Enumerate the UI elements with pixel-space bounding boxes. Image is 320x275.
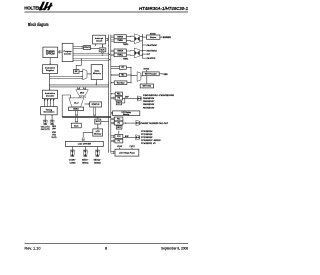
bus arrow to voltage pump: [111, 151, 115, 154]
pad PA: [136, 120, 140, 125]
wire to RES pad: [51, 115, 53, 120]
svg-text:STATUS: STATUS: [92, 103, 101, 106]
svg-text:September 8, 2008: September 8, 2008: [161, 246, 188, 250]
svg-text:STACK: STACK: [84, 46, 91, 49]
wire interrupt stub: [95, 44, 97, 46]
svg-text:COM0~: COM0~: [69, 160, 77, 162]
wire buzzer out: [160, 37, 162, 38]
wire pair bus to tmr0h: [111, 36, 114, 37]
svg-text:VSS: VSS: [52, 134, 56, 136]
bus arrow into LCD driver: [82, 137, 85, 141]
svg-text:Counter: Counter: [64, 52, 72, 55]
block PAC: [114, 117, 123, 121]
svg-text:SEG23: SEG23: [94, 163, 101, 165]
svg-text:VLCD: VLCD: [52, 137, 58, 139]
wire pin line right: [141, 34, 143, 58]
svg-text:PA4/TMR0: PA4/TMR0: [147, 44, 158, 47]
wire bus to TBC: [111, 74, 120, 76]
block WDT Prescaler: [142, 72, 159, 76]
svg-text:WDT OSC: WDT OSC: [143, 86, 152, 88]
bus arrow to PB: [111, 97, 115, 100]
wire to OSC1 pad: [44, 115, 46, 120]
block Buzzer: [147, 35, 160, 39]
wire bus to mux2: [97, 118, 99, 120]
wire bus to PBC: [111, 93, 115, 95]
junction mux1 pair: [102, 55, 103, 56]
wire PB to pad: [122, 97, 137, 99]
svg-text:SEG11: SEG11: [82, 163, 89, 165]
svg-text:BZ/BZB: BZ/BZB: [163, 37, 171, 39]
svg-text:PC1/SEG25: PC1/SEG25: [141, 134, 153, 136]
junction col a: [130, 67, 131, 68]
svg-text:VPP: VPP: [52, 129, 56, 131]
svg-text:PB4/SEG36: PB4/SEG36: [143, 97, 155, 100]
bus arrow interrupt to bus: [106, 38, 109, 41]
block timer 1 low: [114, 53, 126, 57]
svg-text:TMR1: TMR1: [123, 58, 129, 60]
block PBC: [115, 92, 122, 95]
block Program EPROM: [43, 47, 58, 58]
wire fsys stub: [145, 70, 147, 72]
wire bus to ALU input: [62, 95, 70, 117]
block Interrupt Circuit: [93, 35, 106, 44]
wire mux2 to bus: [101, 121, 109, 123]
block Timing Generation: [41, 107, 58, 115]
bus arrow bus to ACC: [75, 118, 78, 123]
svg-text:OSC2 XT2: OSC2 XT2: [41, 129, 50, 131]
block Data Memory: [91, 65, 102, 80]
svg-text:Memory: Memory: [94, 133, 101, 135]
block PB: [115, 96, 122, 100]
junction pin line tmr1 a: [142, 50, 143, 51]
pad RES: [50, 120, 54, 125]
svg-text:TMR0L: TMR0L: [117, 40, 123, 42]
wire pair IR bus b: [50, 78, 83, 79]
svg-text:PC2/SEG26: PC2/SEG26: [141, 137, 153, 139]
wire pair bus to tmr1h: [111, 50, 114, 51]
wire vertical system bus: [109, 35, 111, 153]
bus arrow into mux: [77, 87, 80, 90]
wire pad tmr0 out bottom: [140, 40, 143, 42]
svg-text:COM3: COM3: [69, 163, 76, 165]
wire PCC up: [118, 131, 119, 135]
block PC: [115, 139, 123, 143]
wire into ALU: [70, 95, 71, 98]
block MUX lcd: [95, 119, 101, 124]
wire pair bus to tmr1l: [111, 54, 114, 55]
block timer 1 high: [114, 49, 126, 53]
wire pin stub PA5/TMR1: [142, 49, 146, 51]
pad TMR0: [134, 34, 139, 44]
Holtek logo: [24, 2, 52, 11]
junction bus a: [109, 54, 110, 55]
block MP: [73, 70, 79, 74]
svg-text:Generation: Generation: [43, 111, 55, 114]
block Time Base: [114, 81, 127, 85]
block PB mux: [116, 101, 121, 105]
bus arrow into mux 2: [83, 87, 86, 90]
wire pb mux link: [122, 98, 125, 103]
wire IR to decoder: [49, 74, 51, 91]
svg-text:Memory: Memory: [93, 72, 102, 75]
svg-text:Memory: Memory: [123, 113, 129, 116]
pad PB: [137, 96, 141, 101]
svg-text:EPROM: EPROM: [46, 53, 55, 55]
block TBC: [119, 73, 126, 76]
block ACC: [71, 123, 81, 128]
bus arrow to PC: [111, 140, 115, 143]
svg-text:Decoder: Decoder: [46, 94, 55, 97]
wire pair PC bus upper: [73, 54, 109, 56]
wire MP to mux: [79, 71, 83, 72]
wire driver to SEG A pad: [84, 147, 86, 151]
junction at decoder: [49, 89, 50, 90]
svg-text:LCD Voltage Pump: LCD Voltage Pump: [119, 151, 135, 154]
block PA: [114, 121, 123, 125]
svg-text:ACC: ACC: [74, 124, 79, 127]
wires mux to ALU: [78, 96, 85, 98]
svg-text:PC0/SEG24: PC0/SEG24: [141, 130, 153, 133]
svg-text:Block diagram: Block diagram: [28, 22, 49, 27]
junction pin line tmr0 b: [142, 40, 143, 41]
wire mux2 to LCD memory: [97, 124, 98, 129]
svg-text:PB7/SEG39: PB7/SEG39: [143, 107, 155, 109]
bus arrow mux1 to bus: [101, 52, 104, 54]
svg-text:LCD DRIVER: LCD DRIVER: [78, 144, 92, 146]
mux WDT: [137, 72, 141, 82]
block Program Counter: [62, 43, 73, 61]
wire wdt collector: [126, 68, 137, 83]
block WDT OSC: [140, 84, 153, 88]
block LCD Driver: [65, 141, 103, 146]
svg-text:Register: Register: [46, 69, 54, 72]
svg-text:TMR0: TMR0: [123, 44, 129, 46]
wire pair bus to tmr0l: [111, 40, 114, 41]
wire bus to timebase: [111, 82, 115, 84]
wire bus to ITC pair: [111, 67, 120, 69]
footer rule: [25, 242, 189, 244]
block Instruction Decoder: [43, 90, 58, 98]
wire pad tmr1 out top: [140, 50, 143, 52]
junction pa out: [125, 123, 126, 124]
bus arrow shifter to bus: [75, 111, 78, 117]
svg-text:PA5/TMR1: PA5/TMR1: [147, 49, 158, 52]
svg-text:8: 8: [105, 246, 107, 250]
block timer 0 high: [114, 35, 126, 39]
wire pin stub PA3/PFD: [142, 57, 146, 59]
junction pin line tmr0 a: [142, 36, 143, 37]
junction col c: [130, 82, 131, 83]
wire PC to pad: [123, 137, 136, 139]
wire tmr0 to pad: [126, 36, 134, 41]
wire driver to COM pad: [71, 147, 73, 151]
svg-text:Circuit: Circuit: [96, 39, 103, 42]
junction col b: [130, 74, 131, 75]
bus arrow STATUS to bus: [93, 107, 96, 116]
block LCD Memory: [93, 129, 103, 136]
mux MP: [83, 69, 87, 80]
junction interrupt: [102, 46, 103, 47]
svg-text:ALU: ALU: [74, 101, 79, 104]
pad SEG A: [83, 150, 87, 157]
wire ALU to STATUS: [85, 103, 90, 104]
wire interrupt to mux1: [102, 44, 104, 48]
wire prescaler out: [159, 73, 163, 74]
bus arrow PC to stack: [73, 46, 83, 49]
wire C pin: [132, 148, 133, 150]
svg-text:HT49R30A-1/HT49C30-1: HT49R30A-1/HT49C30-1: [139, 6, 189, 11]
block MUX int: [99, 48, 106, 52]
wire stack level to mux1: [91, 48, 100, 50]
block LCD Display Memory: [113, 111, 140, 116]
svg-text:MUX: MUX: [117, 102, 120, 104]
wire pair PC bus lower: [73, 59, 109, 61]
wire bus to display memory: [111, 112, 113, 113]
pad SEG B: [95, 150, 99, 157]
junction pb out: [124, 98, 125, 99]
junction bus pbc: [111, 93, 112, 94]
wire pair IR bus a: [50, 76, 83, 77]
wire V pin: [119, 148, 120, 150]
svg-text:SEG0~: SEG0~: [82, 160, 89, 162]
svg-text:Time Base: Time Base: [117, 82, 125, 84]
block PA mux: [116, 126, 122, 129]
wire PA to pad: [123, 122, 136, 124]
pad TMR1: [134, 48, 139, 58]
pad OSC1/OSC2: [43, 120, 47, 125]
svg-text:RES: RES: [164, 74, 169, 76]
svg-text:PA0/BZ PA1/BZB PA2~PA7: PA0/BZ PA1/BZB PA2~PA7: [141, 122, 169, 125]
mux above ALU: [76, 90, 88, 96]
wire branch to MP: [76, 59, 81, 70]
svg-text:PA3/PFD: PA3/PFD: [147, 57, 156, 60]
bus arrow to PCC: [111, 135, 115, 138]
junction bus timebase: [111, 82, 112, 83]
bus arrow to PA: [111, 122, 115, 125]
junction pair b left: [49, 84, 50, 85]
svg-text:TMR1L: TMR1L: [117, 54, 123, 56]
wire main data bus: [62, 116, 111, 118]
wire ROM to IR: [50, 58, 51, 65]
header rule: [25, 11, 189, 13]
svg-text:SEG12~: SEG12~: [94, 160, 103, 162]
svg-text:Rev. 1.10: Rev. 1.10: [25, 246, 41, 250]
wire prescaler to wdt: [146, 76, 148, 84]
svg-text:PC3/SEG27~SEG30: PC3/SEG27~SEG30: [141, 140, 161, 142]
junction bus tbc: [111, 74, 112, 75]
svg-text:Shifter: Shifter: [73, 108, 79, 111]
block STACK: [84, 46, 91, 50]
svg-text:PB6/SEG38: PB6/SEG38: [143, 104, 155, 106]
svg-text:MUX: MUX: [117, 127, 120, 129]
block Instruction Register: [43, 65, 58, 74]
svg-text:TMR0H: TMR0H: [117, 36, 124, 38]
junction dm bus: [96, 84, 97, 85]
svg-text:Buzzer: Buzzer: [150, 37, 157, 39]
wire pad tmr0 out top: [140, 36, 143, 38]
junction pin line tmr1 b: [142, 55, 143, 56]
block LCD Voltage Pump: [115, 149, 139, 156]
wire data memory to bus: [96, 80, 97, 85]
svg-text:PB0/SEG32~PB3/SEG35: PB0/SEG32~PB3/SEG35: [143, 95, 175, 97]
bus arrow to PAC: [111, 118, 115, 121]
junction MP branch: [81, 58, 82, 59]
wire to buzzer: [142, 36, 146, 38]
svg-text:PC4/SEG31 V3: PC4/SEG31 V3: [141, 142, 156, 145]
wire pair main mid bus: [50, 85, 109, 87]
svg-text:WDT Prescaler: WDT Prescaler: [145, 72, 157, 75]
pad COM: [70, 150, 74, 157]
wire pin stub PA4/TMR0: [142, 44, 146, 46]
junction bus b: [109, 59, 110, 60]
svg-text:INT: INT: [147, 54, 151, 56]
block timer 0 low: [114, 39, 126, 43]
bus arrow PC to ROM: [58, 50, 62, 53]
wire LCD memory to driver: [83, 133, 93, 138]
block Shifter: [69, 107, 84, 110]
ALU: [69, 98, 84, 107]
svg-text:MUX: MUX: [80, 93, 85, 95]
wires decoder to timing: [44, 99, 55, 107]
block PCC: [115, 134, 123, 138]
wire tmr1 to pad: [126, 51, 134, 56]
wire driver to SEG B pad: [96, 147, 98, 151]
wire mux to prescaler: [141, 75, 142, 77]
wire pad tmr1 out bottom: [140, 54, 143, 56]
svg-text:TMR1H: TMR1H: [117, 51, 124, 53]
svg-text:PB5/SEG37: PB5/SEG37: [143, 101, 155, 103]
junction timing: [52, 115, 53, 116]
block STATUS: [90, 102, 102, 107]
block ITC: [119, 66, 126, 69]
pad PC: [136, 135, 140, 140]
wire pin stub INT: [142, 53, 146, 55]
wire mux to data memory: [87, 73, 91, 74]
